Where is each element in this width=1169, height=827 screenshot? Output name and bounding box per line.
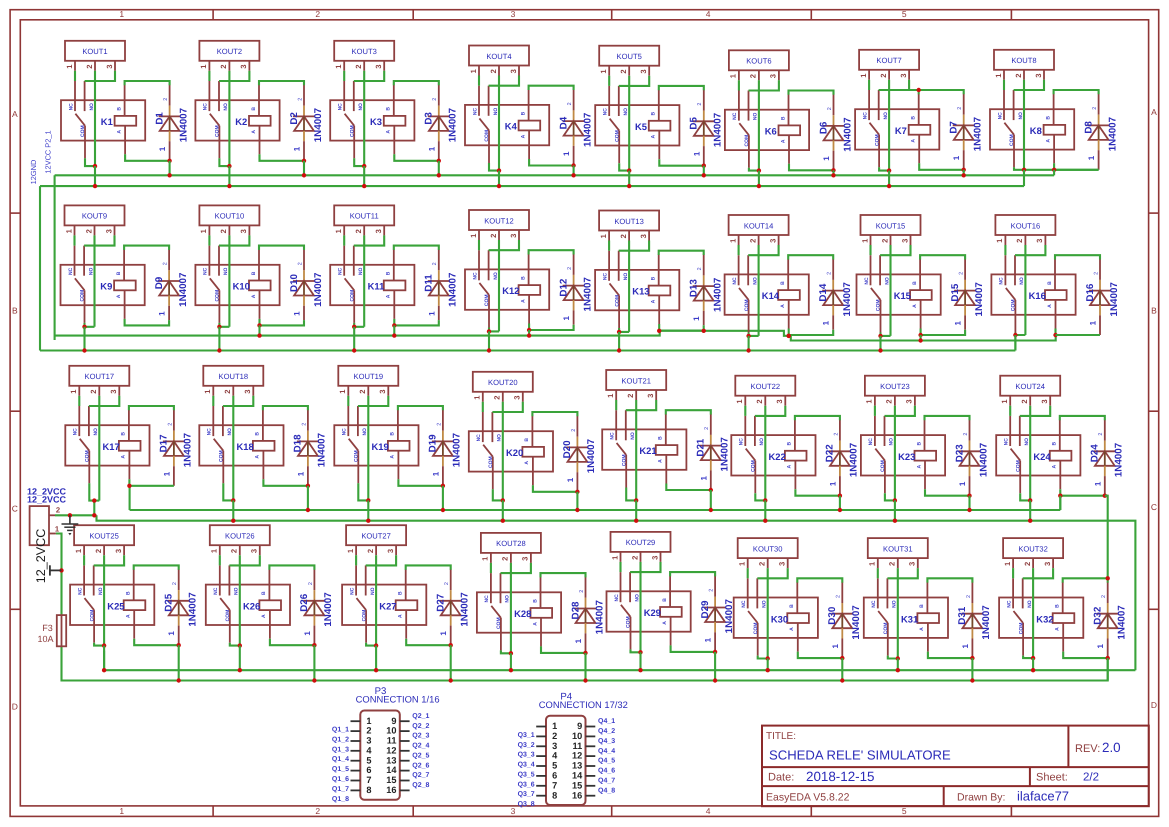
junction D23 on bus xyxy=(967,508,971,512)
wire KOUT10.2 down xyxy=(228,235,230,326)
svg-text:1N4007: 1N4007 xyxy=(313,107,324,142)
wire KOUT28.3 to K28.NO xyxy=(501,563,531,573)
svg-text:1: 1 xyxy=(119,806,124,816)
wire KOUT4.2 to bus xyxy=(498,171,500,187)
svg-text:2: 2 xyxy=(959,272,965,275)
junction KOUT4.2 on bus xyxy=(497,184,501,188)
svg-text:KOUT3: KOUT3 xyxy=(352,47,377,56)
relay K12 xyxy=(465,250,549,327)
svg-text:1N4007: 1N4007 xyxy=(842,282,853,317)
wire KOUT7.2 down xyxy=(888,80,890,171)
svg-text:2: 2 xyxy=(297,262,303,265)
junction D3.1 node xyxy=(437,159,441,163)
svg-text:KOUT8: KOUT8 xyxy=(1011,56,1036,65)
svg-text:COM: COM xyxy=(354,450,360,462)
wire K11.A to bus1 xyxy=(393,325,395,335)
relay K27 xyxy=(342,565,426,642)
junction K11.COM/KOUT11.2 xyxy=(352,325,356,329)
junction D25.1 node xyxy=(177,643,181,647)
diode D27 1N4007 xyxy=(436,569,471,645)
wire KOUT7.2 to bus xyxy=(888,171,890,187)
svg-text:NO: NO xyxy=(223,103,229,111)
svg-text:K1: K1 xyxy=(101,116,113,127)
junction K23.COM/KOUT23.2 xyxy=(893,498,897,502)
diode D18 1N4007 xyxy=(293,410,328,486)
svg-text:2: 2 xyxy=(366,726,371,736)
svg-text:1N4007: 1N4007 xyxy=(981,605,992,640)
svg-text:D30: D30 xyxy=(827,606,838,625)
svg-text:D21: D21 xyxy=(696,438,707,457)
wire KOUT30.1 to K30.NC xyxy=(747,568,749,578)
svg-text:NO: NO xyxy=(752,277,758,285)
svg-text:REV:: REV: xyxy=(1075,743,1100,755)
svg-text:4: 4 xyxy=(706,9,711,19)
wire K18.A to D18.1 xyxy=(263,479,308,486)
svg-text:ilaface77: ilaface77 xyxy=(1017,789,1069,804)
svg-text:NO: NO xyxy=(630,432,636,440)
svg-text:A: A xyxy=(261,614,267,618)
svg-text:Q2_3: Q2_3 xyxy=(412,733,429,740)
svg-text:COM: COM xyxy=(219,450,225,462)
diode D11 1N4007 xyxy=(424,249,459,320)
svg-text:1N4007: 1N4007 xyxy=(582,112,593,147)
svg-text:A: A xyxy=(532,622,538,626)
wire KOUT20.1 to K20.NC xyxy=(482,402,484,412)
svg-text:3: 3 xyxy=(639,69,648,73)
svg-text:NO: NO xyxy=(623,108,629,116)
svg-text:COM: COM xyxy=(80,290,86,302)
connector KOUT16 xyxy=(995,215,1055,245)
svg-text:NO: NO xyxy=(1027,600,1033,608)
svg-text:COM: COM xyxy=(349,125,355,137)
svg-text:2: 2 xyxy=(308,582,314,585)
wire K12.COM jog xyxy=(489,328,499,332)
svg-text:1: 1 xyxy=(822,156,831,161)
svg-text:Q3_2: Q3_2 xyxy=(518,742,535,749)
svg-text:2: 2 xyxy=(827,107,833,110)
svg-text:3: 3 xyxy=(105,64,114,68)
svg-text:2: 2 xyxy=(489,69,498,73)
wire K12.A to D12.1 xyxy=(529,324,574,331)
svg-text:3: 3 xyxy=(778,562,787,566)
diode D22 1N4007 xyxy=(825,420,860,496)
junction KOUT29.2 on bus xyxy=(638,668,642,672)
relay K10 xyxy=(195,246,279,323)
junction KOUT2.2 on bus xyxy=(227,184,231,188)
wire K30.A to D30.1 xyxy=(798,652,843,659)
wire KOUT19.3 to K19.NO xyxy=(358,396,388,406)
svg-text:2: 2 xyxy=(836,595,842,598)
svg-text:1: 1 xyxy=(431,471,440,476)
wire K24.A to D24.1 xyxy=(1060,489,1105,496)
svg-text:2: 2 xyxy=(354,64,363,68)
svg-text:2: 2 xyxy=(704,427,710,430)
svg-text:1N4007: 1N4007 xyxy=(851,605,862,640)
relay K30 xyxy=(734,578,818,655)
junction K8.A node xyxy=(1052,168,1056,172)
svg-text:Q1_8: Q1_8 xyxy=(332,796,349,803)
svg-text:NC: NC xyxy=(472,108,478,116)
svg-text:B: B xyxy=(662,598,668,602)
svg-text:NO: NO xyxy=(358,103,364,111)
frame row ticks left xyxy=(10,212,20,214)
wire KOUT27.1 to K27.NC xyxy=(355,555,357,565)
wire KOUT23.1 to K23.NC xyxy=(874,406,876,416)
wire KOUT2.1 to K2.NC xyxy=(208,71,210,81)
wire KOUT32.2 down xyxy=(1032,568,1034,658)
svg-text:COM: COM xyxy=(484,294,490,306)
svg-text:KOUT20: KOUT20 xyxy=(488,378,518,387)
svg-text:NO: NO xyxy=(497,434,503,442)
connector KOUT20 xyxy=(473,372,533,402)
relay K19 xyxy=(334,406,418,483)
wire D18.1 to bus xyxy=(307,486,309,510)
connector KOUT18 xyxy=(203,366,263,396)
svg-text:1: 1 xyxy=(958,481,967,486)
svg-text:B: B xyxy=(1151,306,1157,316)
wire KOUT23.2 to bus xyxy=(894,500,896,520)
svg-text:A: A xyxy=(780,304,786,308)
junction D25 on bus xyxy=(177,678,181,682)
svg-text:1: 1 xyxy=(1089,320,1098,325)
svg-text:NO: NO xyxy=(889,438,895,446)
wire K19.COM jog xyxy=(358,483,368,500)
wire KOUT22.3 to K22.NO xyxy=(755,406,785,416)
wire K4.COM jog xyxy=(489,163,499,171)
svg-text:C: C xyxy=(12,504,18,514)
svg-text:D5: D5 xyxy=(689,116,700,129)
svg-text:2: 2 xyxy=(354,229,363,233)
svg-text:COM: COM xyxy=(89,610,95,622)
svg-text:Q1_3: Q1_3 xyxy=(332,746,349,753)
svg-text:COM: COM xyxy=(744,135,750,147)
wire K24.COM jog xyxy=(1020,493,1030,500)
wire KOUT28.1 to K28.NC xyxy=(490,563,492,573)
junction KOUT26.2 on bus xyxy=(238,668,242,672)
svg-text:Q4_4: Q4_4 xyxy=(598,748,615,755)
wire K32.COM jog xyxy=(1023,656,1033,659)
wire D5.1 to bus xyxy=(703,166,705,176)
svg-text:NC: NC xyxy=(732,112,738,120)
wire bus 12GND row1 xyxy=(40,185,1024,187)
svg-text:K29: K29 xyxy=(644,607,661,618)
svg-text:KOUT32: KOUT32 xyxy=(1018,544,1048,553)
junction D18.1 node xyxy=(306,484,310,488)
junction KOUT1.2 on bus xyxy=(93,184,97,188)
wire K10.B to D10.2 xyxy=(259,246,304,250)
wire K27.A to D27.1 xyxy=(406,639,451,646)
junction KOUT23.2 on bus xyxy=(893,519,897,523)
junction KOUT5.2 on bus xyxy=(627,184,631,188)
svg-text:NO: NO xyxy=(362,428,368,436)
svg-text:1: 1 xyxy=(952,155,961,160)
junction net label 12_2VCC attach xyxy=(59,568,63,572)
svg-text:3: 3 xyxy=(374,229,383,233)
svg-text:A: A xyxy=(121,455,127,459)
svg-text:KOUT1: KOUT1 xyxy=(82,47,107,56)
wire K20.B to D20.2 xyxy=(532,412,577,416)
svg-text:NO: NO xyxy=(883,112,889,120)
svg-text:3: 3 xyxy=(378,389,387,393)
svg-text:A: A xyxy=(916,465,922,469)
wire KOUT3.2 down xyxy=(363,71,365,166)
svg-text:Q1_1: Q1_1 xyxy=(332,727,349,734)
svg-text:COM: COM xyxy=(488,456,494,468)
junction K10.COM/KOUT10.2 xyxy=(217,325,221,329)
svg-text:1: 1 xyxy=(1096,644,1105,649)
junction D20 on bus xyxy=(575,508,579,512)
wire K27.B to D27.2 xyxy=(406,565,451,569)
junction K12.COM on bus xyxy=(487,348,491,352)
svg-text:NO: NO xyxy=(892,600,898,608)
wire KOUT21.3 to K21.NO xyxy=(626,400,656,410)
svg-text:12_2VCC: 12_2VCC xyxy=(27,494,67,504)
svg-text:COM: COM xyxy=(614,130,620,142)
connector KOUT13 xyxy=(599,211,659,241)
wire K21.A to D21.1 xyxy=(666,484,711,491)
svg-text:2: 2 xyxy=(1093,272,1099,275)
diode D17 1N4007 xyxy=(159,410,194,486)
svg-text:1N4007: 1N4007 xyxy=(1109,282,1120,317)
svg-text:KOUT24: KOUT24 xyxy=(1015,382,1045,391)
svg-text:D29: D29 xyxy=(700,600,711,619)
svg-text:3: 3 xyxy=(775,399,784,403)
svg-text:13: 13 xyxy=(572,761,582,771)
wire KOUT32.1 to K32.NC xyxy=(1012,568,1014,578)
svg-text:10: 10 xyxy=(386,726,396,736)
svg-text:D23: D23 xyxy=(954,444,965,463)
junction K11.A on bus1 xyxy=(392,333,396,337)
svg-text:COM: COM xyxy=(614,295,620,307)
junction D19.1 node xyxy=(441,484,445,488)
junction K20.COM/KOUT20.2 xyxy=(501,498,505,502)
wire K20.A to D20.1 xyxy=(533,485,578,492)
svg-text:B: B xyxy=(911,116,917,120)
wire KOUT9.1 to K9.NC xyxy=(73,235,75,245)
svg-text:1N4007: 1N4007 xyxy=(448,272,459,307)
junction D23.1 node xyxy=(967,494,971,498)
svg-text:NC: NC xyxy=(1004,438,1010,446)
wire KOUT2.2 to bus xyxy=(228,166,230,186)
svg-text:B: B xyxy=(524,438,530,442)
svg-text:2: 2 xyxy=(223,389,232,393)
svg-text:COM: COM xyxy=(883,623,889,635)
wire bus row2 lower xyxy=(40,349,1015,351)
wire K9.COM to bus xyxy=(83,327,85,351)
svg-text:COM: COM xyxy=(361,610,367,622)
svg-text:3: 3 xyxy=(552,741,557,751)
svg-text:5: 5 xyxy=(902,9,907,19)
junction KOUT3.2 on bus xyxy=(362,184,366,188)
svg-text:A: A xyxy=(386,294,392,298)
svg-text:2: 2 xyxy=(297,98,303,101)
svg-text:NC: NC xyxy=(342,428,348,436)
wire K23.COM jog xyxy=(885,493,895,500)
svg-text:12: 12 xyxy=(572,751,582,761)
svg-text:1: 1 xyxy=(566,477,575,482)
svg-text:A: A xyxy=(919,627,925,631)
wire KOUT30.2 down xyxy=(767,568,769,658)
wire KOUT32.2 to busA xyxy=(1032,658,1034,670)
junction D4.1 node xyxy=(571,163,575,167)
wire KOUT15.2 down xyxy=(889,245,891,336)
wire KOUT19.2 down xyxy=(367,396,369,501)
diode D29 1N4007 xyxy=(700,576,735,652)
svg-text:COM: COM xyxy=(85,450,91,462)
wire K5.B to D5.2 xyxy=(659,86,704,90)
svg-text:A: A xyxy=(255,455,261,459)
connector KOUT30 xyxy=(738,538,798,568)
junction KOUT19.2 on bus xyxy=(366,519,370,523)
wire K13.COM to bus xyxy=(618,332,620,351)
svg-text:2: 2 xyxy=(697,103,703,106)
junction K16.A node xyxy=(1053,333,1057,337)
junction K3.COM/KOUT3.2 xyxy=(362,164,366,168)
svg-text:2: 2 xyxy=(89,389,98,393)
junction KOUT25.2 on bus xyxy=(102,668,106,672)
wire KOUT20.3 to K20.NO xyxy=(492,402,522,412)
wire K12.A to bus1 xyxy=(528,330,530,336)
svg-text:2: 2 xyxy=(630,556,639,560)
svg-text:2: 2 xyxy=(493,395,502,399)
svg-text:3: 3 xyxy=(239,229,248,233)
wire KOUT8.3 to K8.NO xyxy=(1014,80,1044,90)
svg-text:16: 16 xyxy=(386,785,396,795)
wire K18.COM jog xyxy=(223,483,233,500)
svg-text:K11: K11 xyxy=(368,281,385,292)
svg-text:2: 2 xyxy=(84,229,93,233)
svg-text:NO: NO xyxy=(370,587,376,595)
wire bus row4 lower xyxy=(62,646,1108,680)
wire K11.A to D11.1 xyxy=(394,319,439,326)
junction D5.1 node xyxy=(702,164,706,168)
wire KOUT5.1 to K5.NC xyxy=(608,76,610,86)
wire KOUT15.1 to K15.NC xyxy=(869,245,871,255)
svg-text:NC: NC xyxy=(73,428,79,436)
junction K17.A node xyxy=(127,484,131,488)
svg-text:2: 2 xyxy=(966,595,972,598)
svg-text:NC: NC xyxy=(999,277,1005,285)
connector KOUT1 xyxy=(65,41,125,71)
wire KOUT26.2 down xyxy=(239,555,241,645)
svg-text:6: 6 xyxy=(552,771,557,781)
wire D29.1 to bus xyxy=(714,652,716,681)
svg-text:2: 2 xyxy=(432,98,438,101)
svg-text:KOUT28: KOUT28 xyxy=(496,539,526,548)
svg-text:NC: NC xyxy=(207,428,213,436)
wire K14.B to D14.2 xyxy=(788,255,833,259)
wire K13.A to D13.1 xyxy=(659,324,704,331)
svg-text:NO: NO xyxy=(759,438,765,446)
wire K21.B to D21.2 xyxy=(666,410,711,414)
diode D2 1N4007 xyxy=(289,85,324,161)
connector KOUT23 xyxy=(865,376,925,406)
svg-text:3: 3 xyxy=(511,806,516,816)
junction K26.COM/KOUT26.2 xyxy=(238,643,242,647)
junction D22.1 node xyxy=(838,494,842,498)
svg-text:2: 2 xyxy=(315,806,320,816)
svg-text:7: 7 xyxy=(552,780,557,790)
svg-text:2: 2 xyxy=(626,394,635,398)
svg-text:1: 1 xyxy=(704,637,713,642)
svg-text:1N4007: 1N4007 xyxy=(323,592,334,627)
svg-text:2: 2 xyxy=(888,562,897,566)
wire KOUT28.2 to bus xyxy=(510,653,512,670)
svg-text:CONNECTION 17/32: CONNECTION 17/32 xyxy=(539,699,628,710)
connector KOUT25 xyxy=(74,525,134,555)
wire K30.COM jog xyxy=(758,656,768,659)
junction KOUT27.2 on bus xyxy=(374,668,378,672)
wire KOUT27.2 to bus xyxy=(375,646,377,671)
svg-text:A: A xyxy=(780,139,786,143)
svg-text:5: 5 xyxy=(902,806,907,816)
svg-text:2: 2 xyxy=(552,731,557,741)
svg-text:Q3_3: Q3_3 xyxy=(518,752,535,759)
svg-text:K5: K5 xyxy=(635,121,647,132)
wire K22.COM jog xyxy=(755,493,765,500)
connector KOUT17 xyxy=(69,366,129,396)
wire KOUT4.2 down xyxy=(498,76,500,171)
svg-text:NO: NO xyxy=(505,595,511,603)
svg-text:K26: K26 xyxy=(243,600,260,611)
svg-text:KOUT11: KOUT11 xyxy=(350,212,379,221)
junction KOUT32.2 on busA xyxy=(1031,668,1035,672)
junction KOUT31.2 on bus xyxy=(896,668,900,672)
wire KOUT8.2 down xyxy=(1023,80,1025,170)
wire K2.COM jog xyxy=(219,158,229,166)
wire KOUT23.3 to K23.NO xyxy=(885,406,915,416)
svg-text:2: 2 xyxy=(749,74,758,78)
wire K19.B to D19.2 xyxy=(398,406,443,410)
wire KOUT27.3 to K27.NO xyxy=(366,555,396,565)
svg-text:TITLE:: TITLE: xyxy=(766,731,796,742)
svg-text:1N4007: 1N4007 xyxy=(178,272,189,307)
wire KOUT17.3 to K17.NO xyxy=(89,396,119,406)
svg-text:Q1_6: Q1_6 xyxy=(332,776,349,783)
svg-text:KOUT30: KOUT30 xyxy=(753,544,783,553)
wire K1.COM jog xyxy=(85,158,95,166)
svg-text:D6: D6 xyxy=(818,121,829,134)
svg-text:1N4007: 1N4007 xyxy=(974,282,985,317)
svg-text:NC: NC xyxy=(741,600,747,608)
wire KOUT23.2 down xyxy=(894,406,896,501)
svg-text:NC: NC xyxy=(203,267,209,275)
svg-text:B: B xyxy=(1055,604,1061,608)
junction K15.COM on bus xyxy=(878,348,882,352)
wire K13.B to D13.2 xyxy=(659,251,704,255)
wire K21.COM jog xyxy=(626,488,636,501)
wire KOUT5.3 to K5.NO xyxy=(619,76,649,86)
svg-text:B: B xyxy=(1045,116,1051,120)
svg-text:2: 2 xyxy=(827,272,833,275)
svg-text:1N4007: 1N4007 xyxy=(460,592,471,627)
svg-text:B: B xyxy=(520,111,526,115)
wire KOUT1.2 down xyxy=(94,71,96,166)
svg-text:K28: K28 xyxy=(514,608,531,619)
junction K2.COM/KOUT2.2 xyxy=(227,164,231,168)
svg-text:3: 3 xyxy=(511,9,516,19)
svg-text:1: 1 xyxy=(303,631,312,636)
junction K15.A on bus1 xyxy=(918,338,922,342)
svg-text:2: 2 xyxy=(1092,107,1098,110)
wire K28.B to D28.2 xyxy=(541,573,586,577)
wire D31.1 to bus xyxy=(971,658,973,680)
svg-text:KOUT29: KOUT29 xyxy=(626,538,656,547)
junction D6 on bus xyxy=(831,173,835,177)
wire K28.COM jog xyxy=(501,650,511,653)
svg-text:K9: K9 xyxy=(100,281,112,292)
wire bus row3 upper xyxy=(130,509,1061,511)
